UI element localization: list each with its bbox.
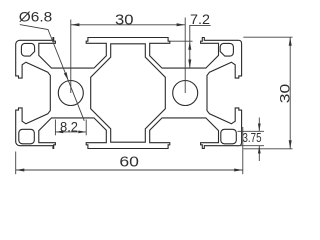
dim 8.2: dimension line [55, 131, 86, 133]
dim 30 right: dimension line [289, 37, 291, 149]
profile outline [16, 38, 242, 149]
dim 3.75: extension bottom [236, 145, 264, 147]
dim 7.2: underline [189, 25, 210, 27]
bore hole right [173, 81, 198, 106]
corner cavity bottom-right [221, 129, 237, 144]
dim 3.75: extension top [238, 130, 265, 132]
bore hole left [58, 81, 83, 106]
central chamber [91, 44, 166, 142]
dim 30 top: dimension line [71, 24, 185, 26]
dim 8.2: extension right [85, 120, 87, 136]
dim 3.75: arrow above [258, 118, 260, 132]
dim 30 right: extension bottom [243, 148, 292, 150]
dim 30 right: extension top [243, 36, 292, 38]
svg-text:60: 60 [119, 155, 139, 171]
svg-text:8.2: 8.2 [60, 118, 78, 134]
dim 30 top: extension line right [184, 18, 186, 94]
dim 30 top: extension line left [70, 20, 72, 94]
svg-text:Ø6.8: Ø6.8 [19, 8, 53, 24]
dim 60: extension right [242, 127, 244, 174]
dim 8.2: extension left [54, 120, 56, 136]
corner cavity top-right [220, 43, 233, 56]
dim 60: dimension line [16, 169, 243, 171]
svg-text:30: 30 [115, 11, 134, 28]
svg-text:3.75: 3.75 [243, 130, 262, 145]
svg-text:30: 30 [277, 84, 293, 104]
corner cavity bottom-left [19, 129, 35, 144]
dim 7.2: top reference line across mouth [169, 40, 192, 42]
dim 7.2: shaft [189, 26, 191, 69]
corner cavity top-left [21, 43, 34, 56]
dim 3.75: arrow below [258, 146, 260, 161]
svg-text:7.2: 7.2 [190, 11, 210, 27]
dim 60: extension left [15, 152, 17, 175]
dim Ø6.8 leader [20, 25, 85, 121]
